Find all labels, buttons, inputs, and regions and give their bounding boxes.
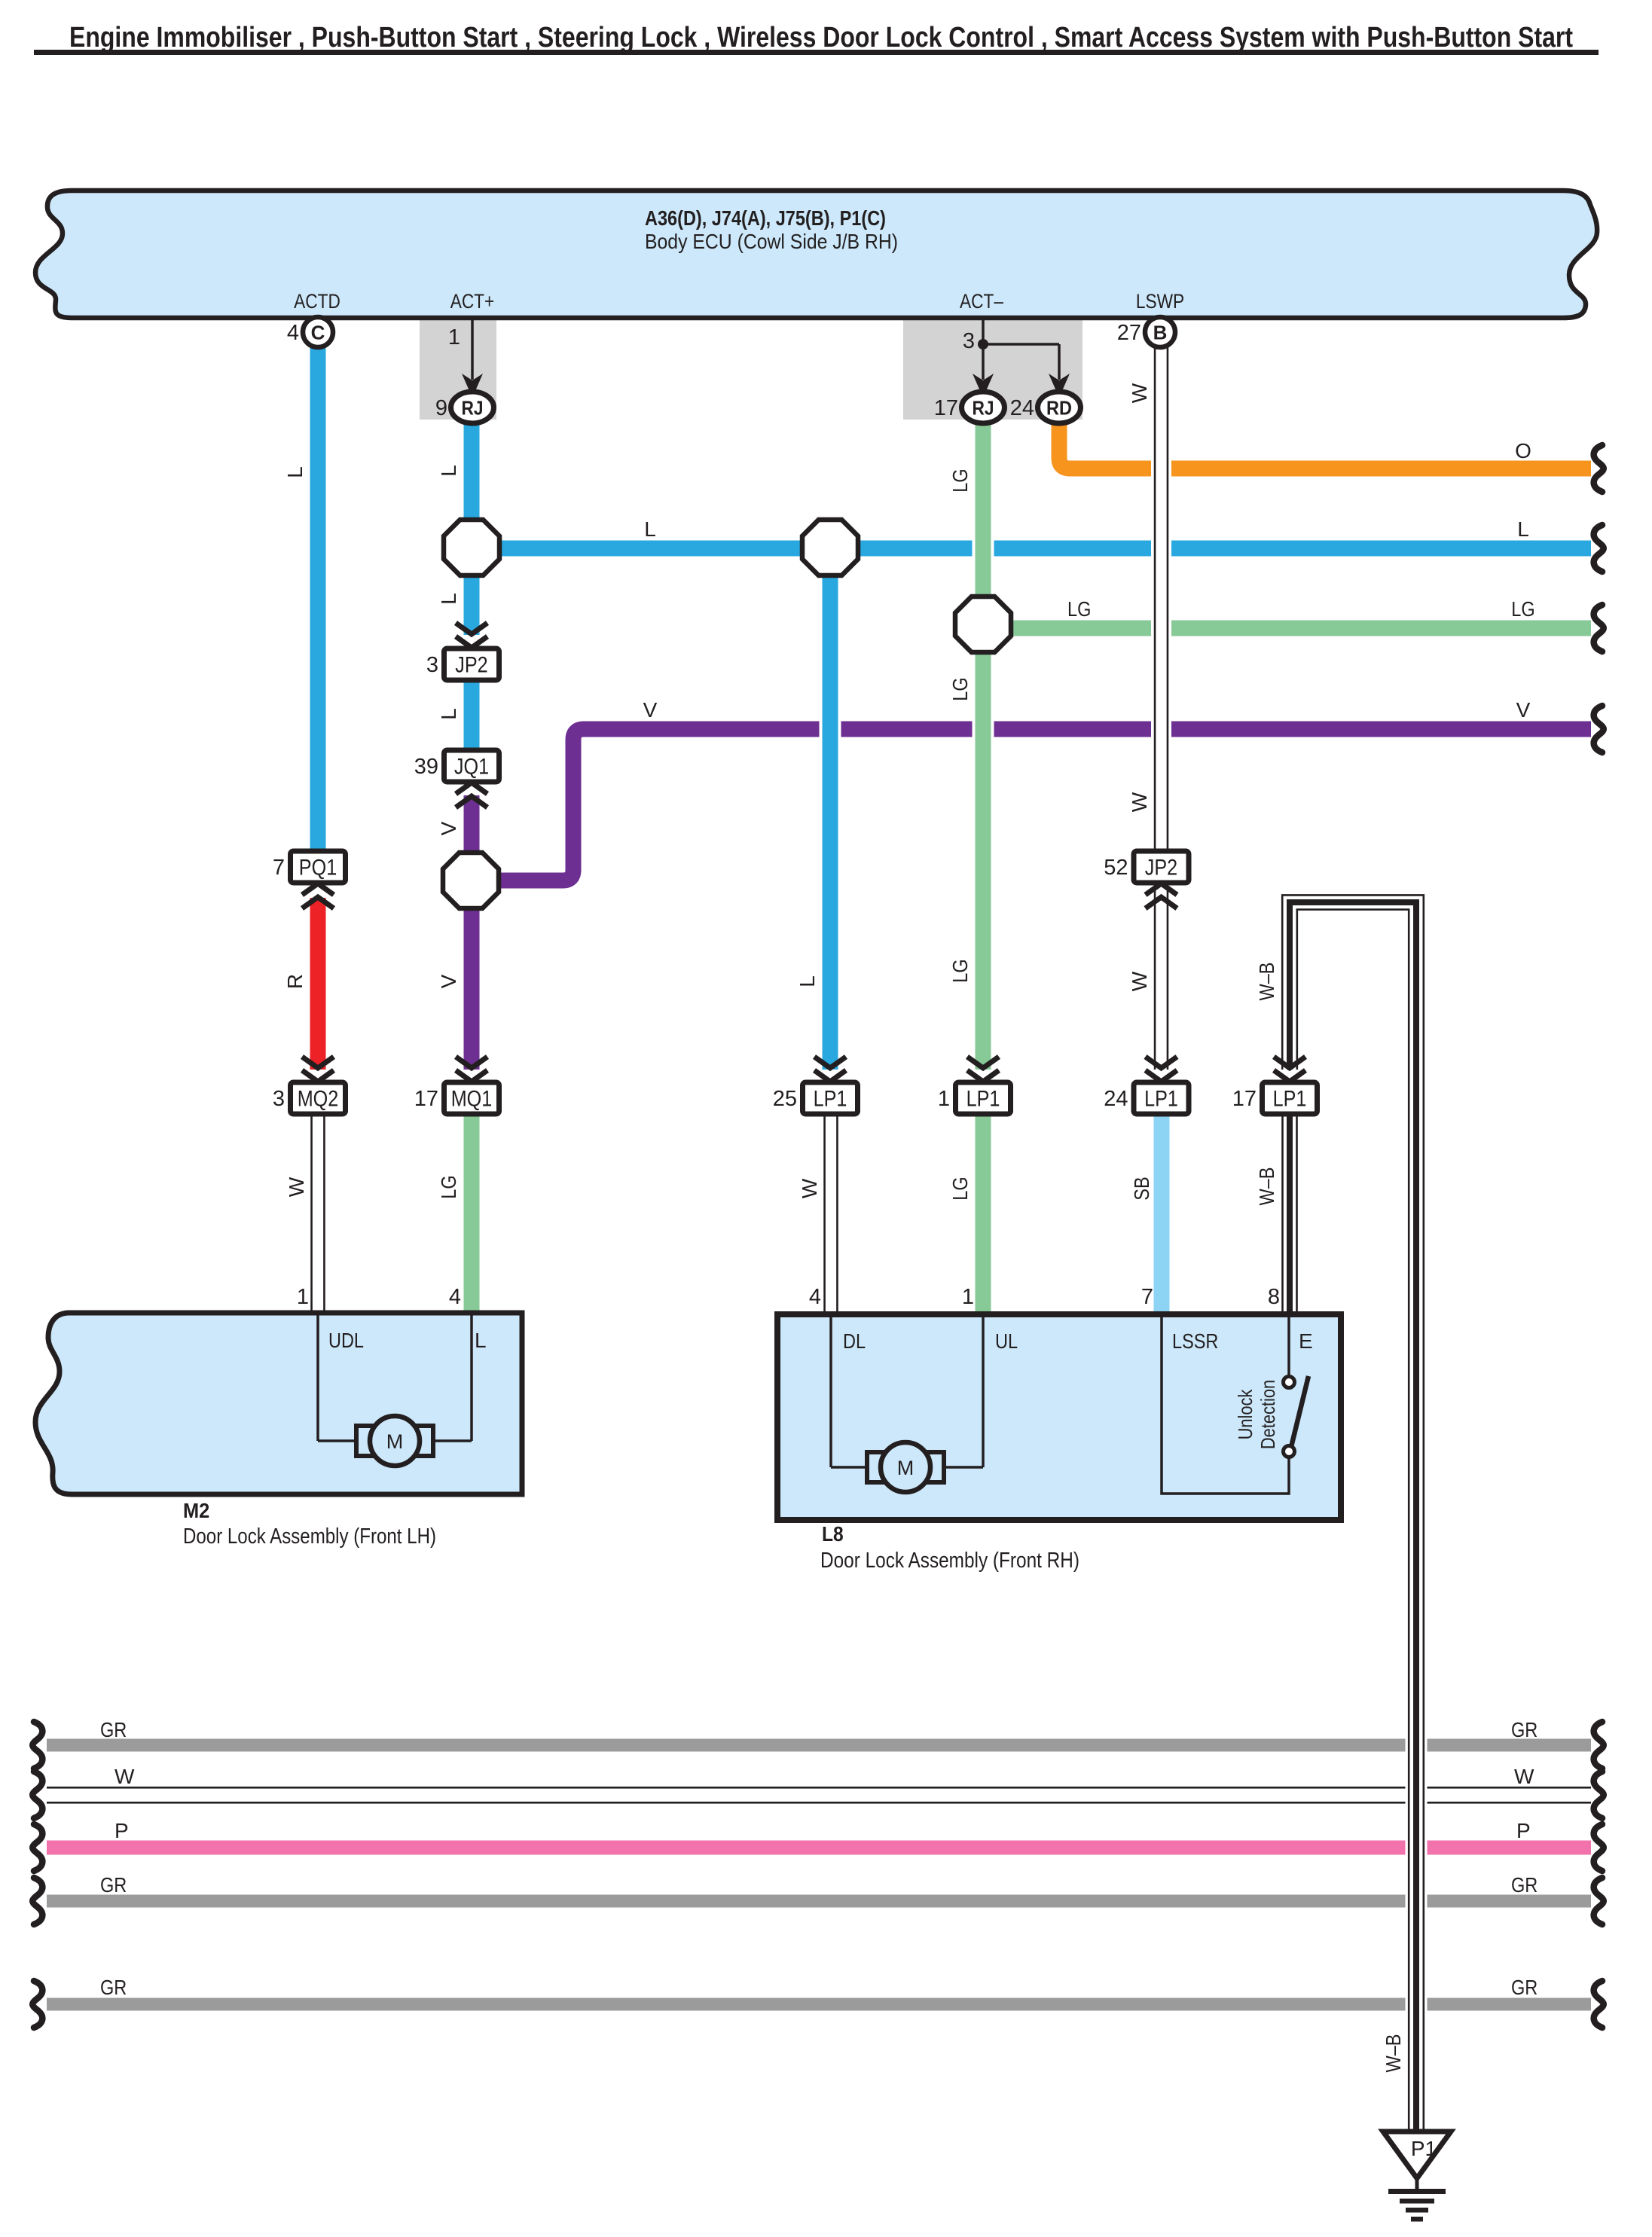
svg-text:LG: LG bbox=[948, 677, 972, 700]
gray shade box at ACT+ connector bbox=[420, 319, 496, 420]
connector LP1 pin 17 bbox=[1232, 1057, 1318, 1114]
junction J/C octagon (L column right) bbox=[802, 520, 858, 575]
svg-text:V: V bbox=[437, 974, 460, 988]
svg-text:M2: M2 bbox=[183, 1499, 209, 1522]
svg-text:17: 17 bbox=[414, 1087, 438, 1111]
wire: W-B from LP1 17 down to L8 pin 8 bbox=[1255, 1114, 1301, 1317]
svg-text:L: L bbox=[644, 517, 656, 541]
svg-text:1: 1 bbox=[962, 1285, 974, 1309]
svg-text:GR: GR bbox=[100, 1976, 127, 1999]
connector LP1 pin 1 bbox=[938, 1057, 1011, 1114]
svg-text:PQ1: PQ1 bbox=[299, 856, 337, 880]
svg-text:P: P bbox=[115, 1819, 129, 1842]
svg-text:W–B: W–B bbox=[1255, 963, 1278, 1001]
svg-text:LSWP: LSWP bbox=[1136, 290, 1184, 313]
wire: LG from MQ1 down to M2 pin 4 bbox=[437, 1114, 480, 1315]
svg-text:Unlock: Unlock bbox=[1234, 1389, 1257, 1440]
svg-text:MQ1: MQ1 bbox=[451, 1087, 493, 1112]
svg-text:4: 4 bbox=[809, 1285, 821, 1309]
svg-text:4: 4 bbox=[287, 321, 299, 345]
svg-text:1: 1 bbox=[448, 325, 460, 349]
svg-text:7: 7 bbox=[1141, 1285, 1153, 1309]
svg-text:LP1: LP1 bbox=[966, 1087, 1000, 1112]
svg-text:W: W bbox=[285, 1176, 308, 1197]
wire: W run (horizontal) bbox=[32, 1765, 1604, 1818]
svg-text:M: M bbox=[386, 1430, 404, 1453]
connector PQ1 pin 7 bbox=[273, 851, 346, 908]
svg-text:L: L bbox=[795, 975, 819, 987]
svg-text:V: V bbox=[643, 698, 658, 722]
svg-text:W: W bbox=[1128, 971, 1151, 991]
svg-text:Detection: Detection bbox=[1257, 1380, 1279, 1449]
svg-text:8: 8 bbox=[1268, 1285, 1280, 1309]
svg-text:17: 17 bbox=[934, 396, 958, 420]
svg-text:V: V bbox=[1516, 698, 1531, 722]
wire: V (violet) JQ1 to junction bbox=[437, 795, 480, 854]
unlock detection switch inside L8 bbox=[1162, 1314, 1308, 1494]
svg-text:3: 3 bbox=[273, 1087, 285, 1111]
svg-text:P1: P1 bbox=[1411, 2137, 1437, 2160]
connector LP1 pin 24 bbox=[1104, 1057, 1189, 1114]
svg-text:P: P bbox=[1516, 1819, 1531, 1842]
svg-text:L: L bbox=[437, 465, 460, 477]
svg-text:C: C bbox=[311, 322, 325, 344]
svg-text:LG: LG bbox=[437, 1175, 460, 1198]
svg-text:DL: DL bbox=[843, 1329, 866, 1353]
ground P1 bbox=[1383, 2132, 1451, 2222]
connector 24 RD oval at ACT- bbox=[1038, 392, 1081, 423]
pin 1 arrow into RJ at ACT+ bbox=[448, 319, 483, 398]
svg-text:M: M bbox=[897, 1457, 915, 1479]
svg-text:4: 4 bbox=[449, 1285, 461, 1309]
svg-text:UDL: UDL bbox=[328, 1329, 364, 1352]
svg-text:GR: GR bbox=[100, 1873, 127, 1897]
svg-text:ACT+: ACT+ bbox=[450, 290, 495, 313]
svg-text:LG: LG bbox=[948, 468, 972, 492]
svg-text:LP1: LP1 bbox=[1273, 1087, 1307, 1112]
svg-text:B: B bbox=[1153, 322, 1168, 344]
svg-text:1: 1 bbox=[297, 1285, 309, 1309]
svg-text:24: 24 bbox=[1010, 396, 1034, 420]
svg-text:MQ2: MQ2 bbox=[298, 1087, 339, 1112]
wire: L (blue) ACTD column from pin C to PQ1 bbox=[283, 347, 326, 851]
pin 4 C circle on ACTD bbox=[303, 317, 333, 347]
svg-text:25: 25 bbox=[773, 1087, 797, 1111]
junction J/C octagon (LG column) bbox=[955, 597, 1011, 652]
svg-text:ACTD: ACTD bbox=[294, 290, 340, 313]
svg-text:RJ: RJ bbox=[972, 397, 994, 420]
wire: LG from LP1 pin 1 down to L8 pin 1 bbox=[948, 1114, 991, 1317]
svg-text:LP1: LP1 bbox=[814, 1087, 847, 1112]
label L8 name bbox=[820, 1522, 1079, 1573]
wire: V (violet) junction to MQ1 bbox=[437, 907, 480, 1070]
svg-text:Engine Immobiliser , Push-Butt: Engine Immobiliser , Push-Button Start ,… bbox=[69, 22, 1573, 53]
motor M inside M2 bbox=[318, 1439, 472, 1442]
svg-text:17: 17 bbox=[1232, 1087, 1257, 1111]
connector JP2 pin 3 bbox=[426, 623, 499, 680]
svg-text:L: L bbox=[437, 708, 460, 720]
svg-text:7: 7 bbox=[273, 856, 285, 880]
svg-text:1: 1 bbox=[938, 1087, 950, 1111]
svg-text:LG: LG bbox=[948, 959, 972, 982]
wire: L (blue) JP2 to JQ1 bbox=[437, 678, 480, 752]
wire: W (white) from LP1 pin 25 down to L8 pin 4 bbox=[798, 1114, 841, 1317]
svg-text:W–B: W–B bbox=[1382, 2034, 1405, 2073]
svg-text:A36(D), J74(A), J75(B), P1(C): A36(D), J74(A), J75(B), P1(C) bbox=[645, 206, 886, 230]
svg-text:27: 27 bbox=[1117, 321, 1141, 345]
svg-text:LG: LG bbox=[1511, 597, 1534, 621]
svg-text:JQ1: JQ1 bbox=[454, 755, 489, 780]
svg-text:L: L bbox=[437, 593, 460, 605]
svg-text:24: 24 bbox=[1104, 1087, 1128, 1111]
component M2 Door Lock Assembly (Front LH) box bbox=[35, 1313, 522, 1494]
component L8 Door Lock Assembly (Front RH) box bbox=[777, 1314, 1341, 1520]
svg-text:W: W bbox=[1514, 1765, 1534, 1788]
svg-text:Door Lock Assembly (Front LH): Door Lock Assembly (Front LH) bbox=[183, 1524, 436, 1549]
wire: L (blue) vertical from right junction down to LP1 pin 25 bbox=[795, 574, 841, 1070]
svg-text:LG: LG bbox=[1067, 597, 1091, 621]
svg-text:UL: UL bbox=[995, 1329, 1018, 1353]
pin 3 junction and arrows at ACT- bbox=[963, 319, 1070, 398]
title: system names header bbox=[34, 22, 1599, 55]
svg-text:L: L bbox=[475, 1329, 487, 1352]
svg-text:W: W bbox=[1128, 383, 1151, 403]
svg-text:JP2: JP2 bbox=[1145, 856, 1177, 880]
wire: L (blue) horizontal between junctions and to right edge bbox=[472, 517, 1604, 572]
svg-text:W–B: W–B bbox=[1255, 1167, 1278, 1206]
junction J/C octagon (L column ACT+) bbox=[444, 520, 499, 575]
svg-text:O: O bbox=[1515, 439, 1531, 462]
svg-text:RD: RD bbox=[1046, 397, 1072, 420]
svg-text:LSSR: LSSR bbox=[1172, 1329, 1218, 1353]
connector LP1 pin 25 bbox=[773, 1057, 858, 1114]
svg-text:39: 39 bbox=[414, 755, 438, 779]
wire: V (violet) branch from junction up and right to right edge bbox=[471, 698, 1604, 880]
svg-text:GR: GR bbox=[1511, 1873, 1537, 1897]
wire: SB from LP1 24 down to L8 pin 7 bbox=[1130, 1114, 1170, 1317]
wire: R (red) between PQ1 and MQ2 bbox=[283, 898, 326, 1070]
svg-text:3: 3 bbox=[426, 653, 438, 677]
gray shade box at ACT- connector bbox=[903, 319, 1083, 420]
svg-text:52: 52 bbox=[1104, 856, 1128, 880]
svg-text:ACT–: ACT– bbox=[960, 290, 1003, 313]
connector MQ1 pin 17 bbox=[414, 1057, 499, 1114]
svg-text:Door Lock Assembly (Front RH): Door Lock Assembly (Front RH) bbox=[820, 1549, 1079, 1573]
svg-text:GR: GR bbox=[1511, 1976, 1537, 1999]
wire: LG horizontal from junction to right edge bbox=[983, 597, 1604, 652]
svg-text:SB: SB bbox=[1130, 1176, 1153, 1200]
pin 27 B circle on LSWP bbox=[1145, 317, 1175, 347]
svg-text:W: W bbox=[798, 1178, 821, 1198]
svg-text:V: V bbox=[437, 821, 460, 835]
wire: GR run 1 (horizontal) bbox=[32, 1718, 1604, 1769]
svg-text:L: L bbox=[283, 466, 307, 478]
svg-text:3: 3 bbox=[963, 329, 975, 353]
junction J/C octagon (V column) bbox=[443, 853, 499, 908]
wire: W (white) LSWP column from pin B to JP2 52 bbox=[1128, 346, 1171, 851]
svg-text:E: E bbox=[1299, 1329, 1313, 1353]
wire: L (blue) ACT+ column RJ to junction bbox=[437, 421, 480, 521]
svg-text:LG: LG bbox=[948, 1176, 972, 1200]
wire: LG vertical ACT- column from RJ through junction to LP1 pin 1 bbox=[948, 421, 994, 1070]
wire: GR run 2 (horizontal) bbox=[32, 1873, 1604, 1924]
connector 9 RJ oval at ACT+ bbox=[451, 392, 494, 423]
connector MQ2 pin 3 bbox=[273, 1057, 346, 1114]
connector JQ1 pin 39 bbox=[414, 750, 499, 807]
wire: W-B loop from LP1 17 up over and down to ground bbox=[1255, 895, 1424, 2132]
svg-text:GR: GR bbox=[100, 1718, 127, 1741]
svg-text:9: 9 bbox=[435, 396, 447, 420]
svg-text:RJ: RJ bbox=[461, 397, 483, 420]
svg-text:GR: GR bbox=[1511, 1718, 1537, 1741]
svg-text:R: R bbox=[283, 974, 307, 989]
svg-text:JP2: JP2 bbox=[455, 653, 487, 678]
wire: W (white) from MQ2 down to M2 pin 1 bbox=[285, 1114, 328, 1315]
svg-text:LP1: LP1 bbox=[1144, 1087, 1178, 1112]
wire: GR run 3 (horizontal) bbox=[32, 1976, 1604, 2028]
svg-text:L8: L8 bbox=[822, 1522, 844, 1546]
wire: O (orange) from RD to right edge bbox=[1059, 416, 1604, 492]
connector JP2 pin 52 bbox=[1104, 851, 1189, 908]
component: Body ECU (Cowl Side J/B RH) box bbox=[35, 191, 1597, 318]
svg-text:Body ECU (Cowl Side J/B RH): Body ECU (Cowl Side J/B RH) bbox=[645, 230, 898, 253]
wire: W (white) from JP2 52 to LP1 24 bbox=[1128, 887, 1171, 1070]
wire: L (blue) junction to JP2 bbox=[437, 574, 480, 635]
motor M inside L8 bbox=[831, 1466, 983, 1469]
label M2 name bbox=[183, 1499, 436, 1549]
svg-text:W: W bbox=[1128, 792, 1151, 812]
connector 17 RJ oval at ACT- bbox=[962, 392, 1005, 423]
wire: P run (horizontal) bbox=[32, 1819, 1604, 1871]
svg-text:W: W bbox=[115, 1765, 135, 1788]
svg-text:L: L bbox=[1517, 517, 1529, 541]
